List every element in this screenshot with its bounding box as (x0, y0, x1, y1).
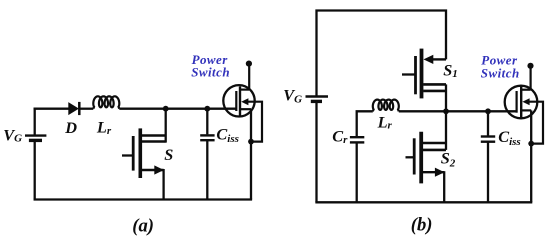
svg-text:Lr: Lr (377, 112, 393, 131)
svg-text:VG: VG (283, 86, 302, 106)
svg-text:Switch: Switch (481, 65, 520, 80)
svg-text:Ciss: Ciss (216, 124, 239, 145)
svg-text:(a): (a) (132, 215, 154, 236)
svg-text:Ciss: Ciss (498, 127, 521, 148)
svg-text:Cr: Cr (332, 127, 348, 146)
svg-text:Switch: Switch (191, 64, 230, 79)
svg-text:D: D (64, 118, 77, 137)
svg-text:VG: VG (3, 126, 22, 145)
svg-text:S: S (164, 145, 173, 164)
svg-text:(b): (b) (411, 214, 433, 235)
svg-text:S2: S2 (441, 148, 456, 169)
svg-text:S1: S1 (443, 60, 458, 80)
svg-text:Lr: Lr (96, 118, 112, 137)
